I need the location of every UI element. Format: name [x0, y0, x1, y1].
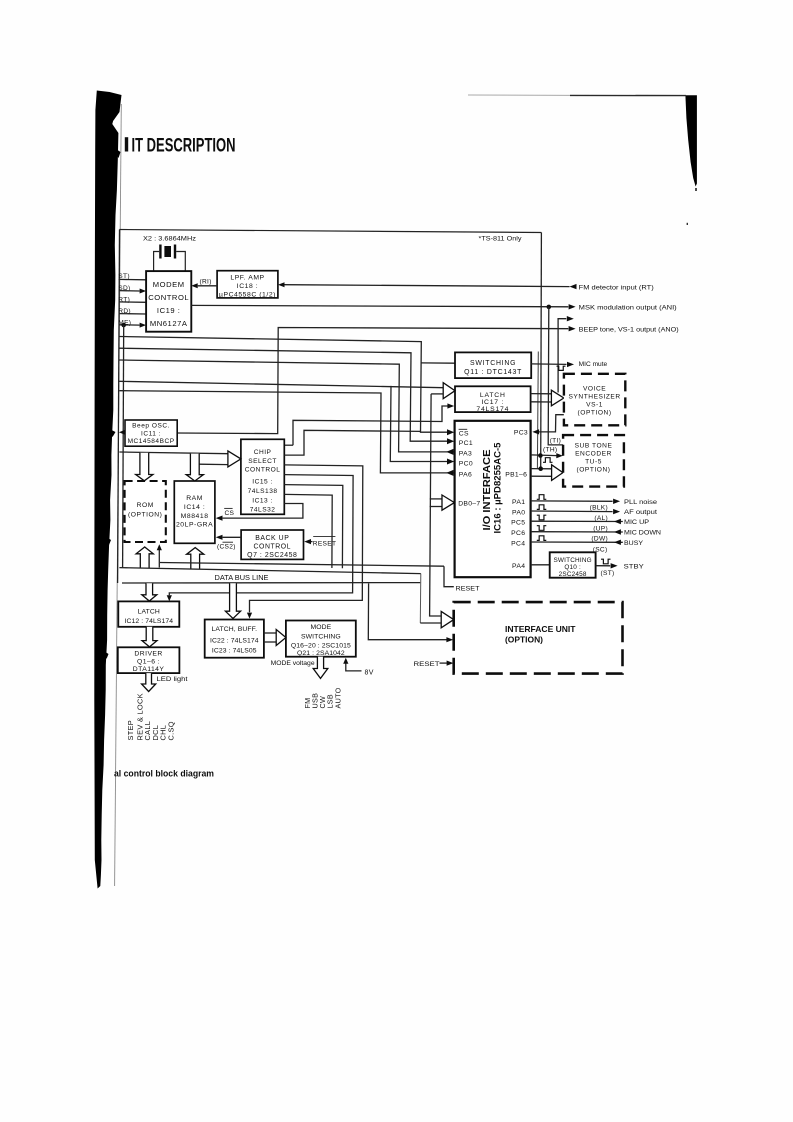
- svg-text:ROM: ROM: [137, 502, 154, 509]
- svg-text:(OPTION): (OPTION): [505, 635, 543, 645]
- svg-text:SELECT: SELECT: [248, 458, 277, 465]
- svg-text:VS-1: VS-1: [586, 401, 603, 408]
- svg-text:Q7 : 2SC2458: Q7 : 2SC2458: [247, 552, 297, 559]
- svg-text:(RI): (RI): [200, 278, 212, 285]
- svg-text:LED light: LED light: [157, 676, 188, 683]
- svg-text:PA1: PA1: [512, 499, 525, 506]
- svg-text:LPF. AMP: LPF. AMP: [230, 275, 264, 282]
- svg-text:IC14 :: IC14 :: [184, 504, 205, 511]
- svg-text:M88418: M88418: [181, 513, 209, 520]
- svg-text:DATA BUS LINE: DATA BUS LINE: [215, 575, 269, 582]
- svg-text:MIC UP: MIC UP: [624, 519, 650, 526]
- svg-text:IC16 : µPD8255AC-5: IC16 : µPD8255AC-5: [492, 442, 503, 533]
- svg-text:RESET: RESET: [414, 661, 440, 668]
- svg-text:MIC mute: MIC mute: [579, 361, 608, 368]
- svg-text:MODE voltage: MODE voltage: [271, 660, 315, 667]
- svg-text:PA4: PA4: [512, 563, 525, 570]
- svg-text:IC18 :: IC18 :: [237, 283, 258, 290]
- svg-text:PC0: PC0: [459, 460, 473, 467]
- svg-text:TU-5: TU-5: [585, 459, 602, 466]
- svg-text:IC23 : 74LS05: IC23 : 74LS05: [212, 648, 257, 655]
- svg-text:PA0: PA0: [512, 509, 525, 516]
- svg-text:PC5: PC5: [511, 520, 525, 527]
- svg-text:PA3: PA3: [459, 450, 472, 457]
- svg-text:CONTROL: CONTROL: [245, 467, 281, 474]
- svg-text:(TI): (TI): [550, 438, 561, 445]
- svg-text:(UP): (UP): [593, 525, 608, 532]
- svg-text:CONTROL: CONTROL: [254, 544, 292, 551]
- svg-text:BACK UP: BACK UP: [255, 535, 289, 542]
- svg-text:AUTO: AUTO: [334, 687, 343, 708]
- svg-text:X2 : 3.6864MHz: X2 : 3.6864MHz: [143, 235, 197, 242]
- svg-text:(CS2): (CS2): [217, 544, 236, 551]
- svg-text:MC14584BCP: MC14584BCP: [128, 438, 175, 445]
- svg-text:PLL noise: PLL noise: [624, 499, 657, 506]
- svg-text:IC17 :: IC17 :: [481, 399, 504, 406]
- svg-text:STBY: STBY: [624, 564, 645, 571]
- svg-text:PC6: PC6: [511, 530, 525, 537]
- svg-text:MN6127A: MN6127A: [150, 319, 188, 328]
- svg-text:MODE: MODE: [310, 624, 331, 631]
- svg-text:al control block diagram: al control block diagram: [114, 769, 214, 779]
- svg-text:74LS138: 74LS138: [248, 488, 278, 495]
- svg-text:(OPTION): (OPTION): [578, 409, 612, 416]
- svg-text:(AL): (AL): [594, 515, 608, 522]
- svg-text:20LP-GRA: 20LP-GRA: [176, 522, 213, 529]
- svg-text:Q21 : 2SA1042: Q21 : 2SA1042: [297, 650, 345, 657]
- svg-text:74LS32: 74LS32: [250, 506, 276, 513]
- svg-text:AF output: AF output: [624, 509, 657, 516]
- svg-text:PC4: PC4: [511, 540, 525, 547]
- svg-text:MSK modulation output (ANI): MSK modulation output (ANI): [579, 305, 677, 312]
- svg-text:VOICE: VOICE: [583, 386, 606, 393]
- svg-text:*TS-811 Only: *TS-811 Only: [479, 236, 523, 243]
- svg-text:Q10 :: Q10 :: [564, 564, 581, 571]
- svg-text:8V: 8V: [365, 669, 374, 676]
- svg-text:CS: CS: [225, 510, 235, 517]
- svg-text:CONTROL: CONTROL: [148, 293, 189, 302]
- svg-text:SWITCHING: SWITCHING: [470, 360, 516, 367]
- svg-text:LATCH: LATCH: [480, 392, 506, 399]
- svg-text:CS: CS: [459, 430, 469, 437]
- svg-text:BEEP tone, VS-1 output (ANO): BEEP tone, VS-1 output (ANO): [579, 326, 679, 333]
- svg-text:IT DESCRIPTION: IT DESCRIPTION: [132, 135, 236, 157]
- svg-text:(ST): (ST): [601, 570, 615, 577]
- svg-text:STEP: STEP: [126, 720, 135, 741]
- svg-text:74LS174: 74LS174: [476, 406, 509, 413]
- svg-text:(DW): (DW): [591, 536, 608, 543]
- svg-text:IC19 :: IC19 :: [157, 306, 181, 315]
- svg-text:(TH): (TH): [543, 447, 557, 454]
- svg-text:SYNTHESIZER: SYNTHESIZER: [568, 394, 620, 401]
- svg-text:Q1–6 :: Q1–6 :: [137, 658, 160, 665]
- svg-text:ENCODER: ENCODER: [575, 451, 612, 458]
- svg-text:LATCH, BUFF.: LATCH, BUFF.: [211, 626, 257, 633]
- svg-text:(OPTION): (OPTION): [576, 467, 610, 474]
- svg-text:RESET: RESET: [456, 585, 480, 592]
- svg-text:PA6: PA6: [459, 471, 472, 478]
- svg-text:PB1–6: PB1–6: [505, 472, 527, 479]
- svg-text:DTA114Y: DTA114Y: [133, 666, 165, 673]
- svg-text:PC1: PC1: [459, 440, 473, 447]
- svg-text:IC12 : 74LS174: IC12 : 74LS174: [124, 618, 173, 625]
- svg-text:Q16~20 : 2SC1015: Q16~20 : 2SC1015: [291, 642, 351, 649]
- svg-text:µPC4558C (1/2): µPC4558C (1/2): [219, 291, 276, 298]
- svg-text:IC15 :: IC15 :: [252, 479, 273, 486]
- svg-text:SWITCHING: SWITCHING: [301, 633, 341, 640]
- svg-text:Beep OSC.: Beep OSC.: [132, 423, 170, 430]
- svg-text:IC22 : 74LS174: IC22 : 74LS174: [210, 637, 259, 644]
- svg-text:MIC DOWN: MIC DOWN: [624, 530, 661, 537]
- svg-text:Q11 : DTC143T: Q11 : DTC143T: [464, 369, 522, 376]
- svg-text:IC11 :: IC11 :: [141, 430, 161, 437]
- svg-text:SWITCHING: SWITCHING: [553, 557, 591, 564]
- svg-text:BUSY: BUSY: [624, 540, 644, 547]
- svg-text:(BLK): (BLK): [590, 505, 608, 512]
- svg-text:C.SQ: C.SQ: [167, 721, 176, 740]
- svg-text:PC3: PC3: [514, 430, 528, 437]
- svg-text:(OPTION): (OPTION): [128, 512, 163, 519]
- svg-text:FM detector input (RT): FM detector input (RT): [579, 284, 654, 291]
- svg-text:RAM: RAM: [186, 495, 203, 502]
- svg-text:CHIP: CHIP: [254, 449, 272, 456]
- svg-text:DB0–7: DB0–7: [458, 500, 480, 507]
- svg-text:RESET: RESET: [313, 541, 336, 548]
- svg-text:DRIVER: DRIVER: [134, 651, 162, 658]
- svg-text:SUB TONE: SUB TONE: [575, 443, 613, 450]
- svg-text:LATCH: LATCH: [138, 609, 160, 616]
- svg-text:MODEM: MODEM: [153, 280, 185, 289]
- svg-text:INTERFACE UNIT: INTERFACE UNIT: [505, 624, 576, 634]
- svg-text:IC13 :: IC13 :: [252, 497, 273, 504]
- svg-text:2SC2458: 2SC2458: [559, 571, 587, 578]
